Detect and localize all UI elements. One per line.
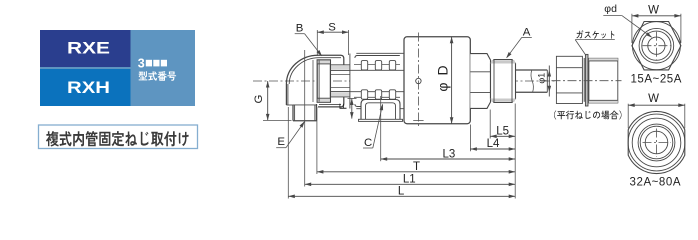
dimension W round xyxy=(627,104,629,129)
dimension W hex xyxy=(631,14,633,43)
main centerline xyxy=(253,80,559,82)
dimension L3 xyxy=(381,158,516,160)
elbow bottom port E xyxy=(292,105,294,121)
svg-text:E: E xyxy=(277,136,285,148)
main body xyxy=(404,37,470,124)
body center mark xyxy=(416,78,421,83)
svg-text:L1: L1 xyxy=(403,173,416,185)
exposed thread xyxy=(330,66,349,70)
svg-text:3: 3 xyxy=(138,56,145,70)
hex center mark xyxy=(642,45,670,47)
dimension T xyxy=(317,171,515,173)
dimension L4 xyxy=(470,148,515,150)
body bottom center tick xyxy=(413,120,423,122)
dimension L1 xyxy=(305,183,516,185)
pipe end / dimension phi1 xyxy=(546,70,548,92)
svg-text:L5: L5 xyxy=(496,126,509,138)
svg-text:RXH: RXH xyxy=(67,78,110,97)
port C axis xyxy=(380,96,382,127)
svg-text:G: G xyxy=(253,94,265,103)
side view centerline xyxy=(552,80,622,82)
elbow collar over thread xyxy=(318,54,341,56)
collar cylinder xyxy=(589,58,618,103)
model badge background xyxy=(40,30,195,106)
gland studs top xyxy=(354,64,400,66)
round nut front view 32A-80A xyxy=(628,111,685,173)
mounting type box xyxy=(39,125,198,149)
svg-text:F: F xyxy=(338,103,350,109)
hex nut front view 15A-25A xyxy=(632,22,681,70)
inner pipe port C xyxy=(361,100,400,122)
elbow body xyxy=(286,55,318,84)
dimension phiD xyxy=(451,37,453,124)
svg-text:S: S xyxy=(328,22,336,34)
gasket label xyxy=(576,30,614,39)
svg-text:A: A xyxy=(523,26,531,38)
body vertical centerline xyxy=(417,33,419,128)
gland studs bottom xyxy=(354,96,400,98)
svg-text:L3: L3 xyxy=(443,148,456,160)
svg-text:RXE: RXE xyxy=(67,39,110,58)
hex collar xyxy=(470,54,490,109)
RXH box xyxy=(40,69,131,106)
inner pipe nut B xyxy=(317,60,330,102)
parallel thread note xyxy=(554,110,622,119)
svg-text:32A~80A: 32A~80A xyxy=(630,176,682,188)
svg-text:B: B xyxy=(296,23,304,35)
svg-text:W: W xyxy=(648,93,659,105)
svg-text:L: L xyxy=(398,186,405,198)
svg-text:φ1: φ1 xyxy=(537,73,547,84)
svg-text:L4: L4 xyxy=(487,138,500,150)
dimension L xyxy=(288,195,515,197)
pipe stub xyxy=(516,69,548,71)
svg-text:φd: φd xyxy=(604,3,617,15)
gasket ring xyxy=(585,54,588,106)
extension lines xyxy=(287,107,289,199)
elbow inner bore xyxy=(312,60,314,102)
svg-text:C: C xyxy=(364,137,372,149)
katashiki bangou label xyxy=(139,71,177,81)
dimension L5 xyxy=(490,135,515,137)
svg-text:φD: φD xyxy=(435,58,451,91)
elbow port axis xyxy=(304,50,306,127)
svg-text:T: T xyxy=(413,161,420,173)
RXE box xyxy=(40,30,131,67)
svg-text:15A~25A: 15A~25A xyxy=(630,74,682,86)
rotor nut A xyxy=(491,60,516,103)
round nut center mark xyxy=(643,142,671,144)
gasket side view nut xyxy=(556,56,582,103)
bonnet flange section xyxy=(350,53,405,108)
svg-text:W: W xyxy=(648,4,659,16)
